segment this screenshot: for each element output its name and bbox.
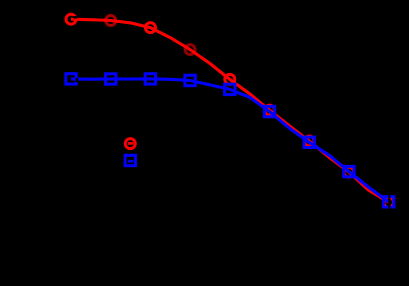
blue square marker 6 <box>264 106 274 116</box>
red circle marker 5 <box>225 74 235 84</box>
red circle marker 2 (dim, degraded) <box>106 16 116 26</box>
blue square marker 2 <box>106 74 116 84</box>
legend blue square marker <box>125 155 135 165</box>
red circle marker 9 <box>384 197 394 207</box>
legend red circle marker <box>125 139 135 149</box>
red circle marker 7 <box>304 136 314 146</box>
red circle marker 8 <box>344 167 354 177</box>
black axes right spine overlay cutting last markers <box>388 191 390 211</box>
red circle marker 4 (dim, degraded) <box>185 45 195 55</box>
blue data line (series 2) <box>71 79 389 202</box>
black gap on right of first red marker <box>73 16 77 18</box>
blue square marker 1 <box>66 74 76 84</box>
black gap on right of first blue marker <box>76 78 79 82</box>
blue square marker 7 <box>304 137 314 147</box>
blue square marker 8 <box>344 166 354 176</box>
red circle marker 1 <box>66 14 76 24</box>
red circle marker 3 <box>145 23 155 33</box>
red circle marker 6 <box>265 105 275 115</box>
legend red line sample <box>128 142 133 145</box>
legend blue line sample <box>128 160 133 163</box>
red data line (series 1) <box>71 19 389 202</box>
blue square marker 4 <box>185 75 195 85</box>
blue square marker 5 <box>225 84 235 94</box>
blue square marker 9 <box>383 197 393 207</box>
blue square marker 3 <box>145 74 155 84</box>
